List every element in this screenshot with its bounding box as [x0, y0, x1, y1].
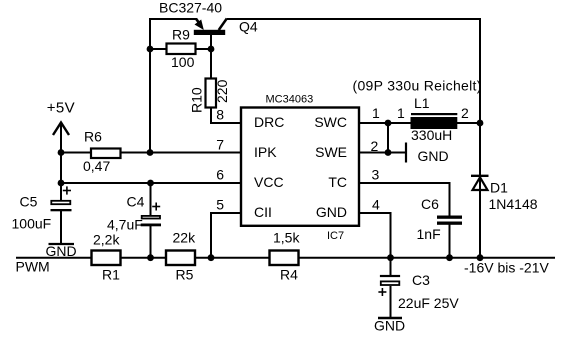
wire R9 row	[150, 48, 211, 50]
svg-text:220: 220	[214, 79, 230, 103]
node rail C3	[387, 254, 394, 261]
node VCC C4	[147, 180, 154, 187]
svg-text:3: 3	[372, 167, 380, 183]
svg-text:R5: R5	[176, 267, 194, 283]
wire IPK line pin 7	[61, 152, 240, 154]
wire C5 to ground	[60, 211, 62, 244]
svg-text:C4: C4	[127, 194, 145, 210]
svg-text:SWE: SWE	[315, 144, 347, 160]
wire L1 to output node	[457, 122, 480, 124]
svg-text:DRC: DRC	[254, 114, 284, 130]
node rail C4	[147, 254, 154, 261]
svg-text:4,7uF: 4,7uF	[107, 217, 143, 233]
svg-text:R10: R10	[189, 87, 205, 113]
wire CII pin 5 to rail	[211, 213, 240, 258]
svg-text:L1: L1	[414, 95, 430, 111]
wire GND pin 4 to rail	[359, 213, 391, 258]
svg-text:22k: 22k	[173, 230, 197, 246]
wire collector to D1 column	[227, 19, 480, 258]
svg-text:6: 6	[216, 167, 224, 183]
power arrow +5V	[53, 123, 69, 136]
wire C3 top	[390, 258, 392, 276]
wire SWC pin 1	[359, 122, 411, 124]
svg-text:+5V: +5V	[47, 100, 75, 117]
node L1 out	[477, 120, 484, 127]
ground bar C5	[49, 243, 75, 245]
svg-text:C5: C5	[20, 194, 38, 210]
node emitter column IPK	[147, 149, 154, 156]
capacitor C5	[51, 186, 72, 211]
wire output rail PWM	[16, 257, 555, 259]
wire VCC line pin 6	[61, 182, 240, 184]
node base R9 R10	[208, 46, 215, 53]
svg-text:C3: C3	[412, 272, 430, 288]
wire C6 to rail	[449, 225, 451, 259]
svg-text:100uF: 100uF	[12, 215, 52, 231]
node rail CII	[208, 254, 215, 261]
resistor R9	[167, 44, 196, 55]
transistor Q4	[194, 19, 227, 36]
svg-text:R4: R4	[280, 267, 298, 283]
svg-text:GND: GND	[46, 243, 77, 259]
svg-text:TC: TC	[328, 174, 347, 190]
node VCC C5	[58, 180, 65, 187]
svg-text:1nF: 1nF	[417, 226, 441, 242]
svg-text:BC327-40: BC327-40	[159, 0, 222, 16]
resistor R1	[92, 251, 121, 266]
svg-text:GND: GND	[374, 318, 405, 334]
svg-text:IPK: IPK	[254, 144, 277, 160]
inductor L1	[411, 113, 458, 129]
svg-text:1: 1	[397, 105, 405, 121]
wire C4 top	[150, 183, 152, 216]
svg-text:7: 7	[216, 137, 224, 153]
svg-text:100: 100	[171, 54, 195, 70]
wire SWC-SWE link	[387, 123, 389, 153]
resistor R5	[166, 251, 195, 266]
svg-text:2: 2	[461, 105, 469, 121]
ground bar SWE	[405, 143, 407, 163]
node rail D1	[477, 254, 484, 261]
svg-text:1: 1	[372, 105, 380, 121]
svg-text:GND: GND	[418, 148, 449, 164]
svg-text:(09P 330u Reichelt): (09P 330u Reichelt)	[353, 78, 482, 94]
svg-text:22uF 25V: 22uF 25V	[398, 295, 459, 311]
svg-text:8: 8	[216, 107, 224, 123]
svg-text:IC7: IC7	[327, 230, 344, 242]
svg-text:GND: GND	[316, 204, 347, 220]
node R6 left	[58, 149, 65, 156]
svg-text:2,2k: 2,2k	[93, 231, 120, 247]
svg-text:Q4: Q4	[239, 19, 258, 35]
node rail C6	[446, 254, 453, 261]
svg-text:SWC: SWC	[314, 114, 347, 130]
wire C4 bottom	[150, 226, 152, 258]
svg-text:R6: R6	[84, 129, 102, 145]
svg-text:4: 4	[372, 197, 380, 213]
svg-text:R9: R9	[172, 27, 190, 43]
svg-text:MC34063: MC34063	[266, 94, 314, 106]
wire TC pin 3 to C6	[359, 183, 450, 216]
svg-text:PWM: PWM	[16, 259, 50, 275]
node R9 left	[147, 46, 154, 53]
svg-text:R1: R1	[102, 267, 120, 283]
capacitor C3	[378, 275, 400, 296]
svg-text:C6: C6	[421, 196, 439, 212]
node SWC	[385, 120, 392, 127]
diode D1	[471, 176, 489, 190]
wire base R10 column to pin 8	[211, 35, 240, 124]
svg-text:CII: CII	[254, 204, 272, 220]
resistor R4	[270, 251, 299, 266]
svg-text:-16V bis -21V: -16V bis -21V	[464, 260, 549, 276]
svg-text:1N4148: 1N4148	[489, 196, 538, 212]
svg-text:D1: D1	[490, 180, 508, 196]
resistor R10	[206, 79, 217, 108]
svg-text:330uH: 330uH	[411, 127, 452, 143]
capacitor C6	[437, 216, 462, 225]
wire C3 to ground	[390, 286, 392, 318]
node SWE	[385, 149, 392, 156]
svg-text:1,5k: 1,5k	[273, 230, 300, 246]
svg-text:0,47: 0,47	[83, 158, 110, 174]
capacitor C4	[141, 203, 161, 227]
wire top emitter segment	[150, 19, 197, 153]
wire SWE pin 2	[359, 152, 406, 154]
IC U1 MC34063 body	[241, 108, 359, 226]
svg-text:VCC: VCC	[254, 174, 284, 190]
wire +5V vertical	[60, 123, 62, 201]
ground bar C3	[378, 317, 402, 319]
svg-text:2: 2	[371, 138, 379, 154]
svg-text:5: 5	[216, 197, 224, 213]
resistor R6	[91, 149, 121, 159]
